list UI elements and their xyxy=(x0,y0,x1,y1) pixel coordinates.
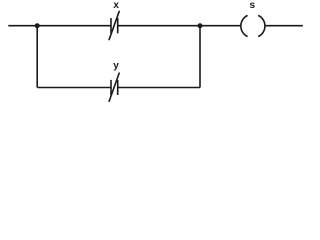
svg-text:x: x xyxy=(113,0,119,11)
svg-text:y: y xyxy=(113,61,119,72)
svg-text:s: s xyxy=(250,0,256,11)
